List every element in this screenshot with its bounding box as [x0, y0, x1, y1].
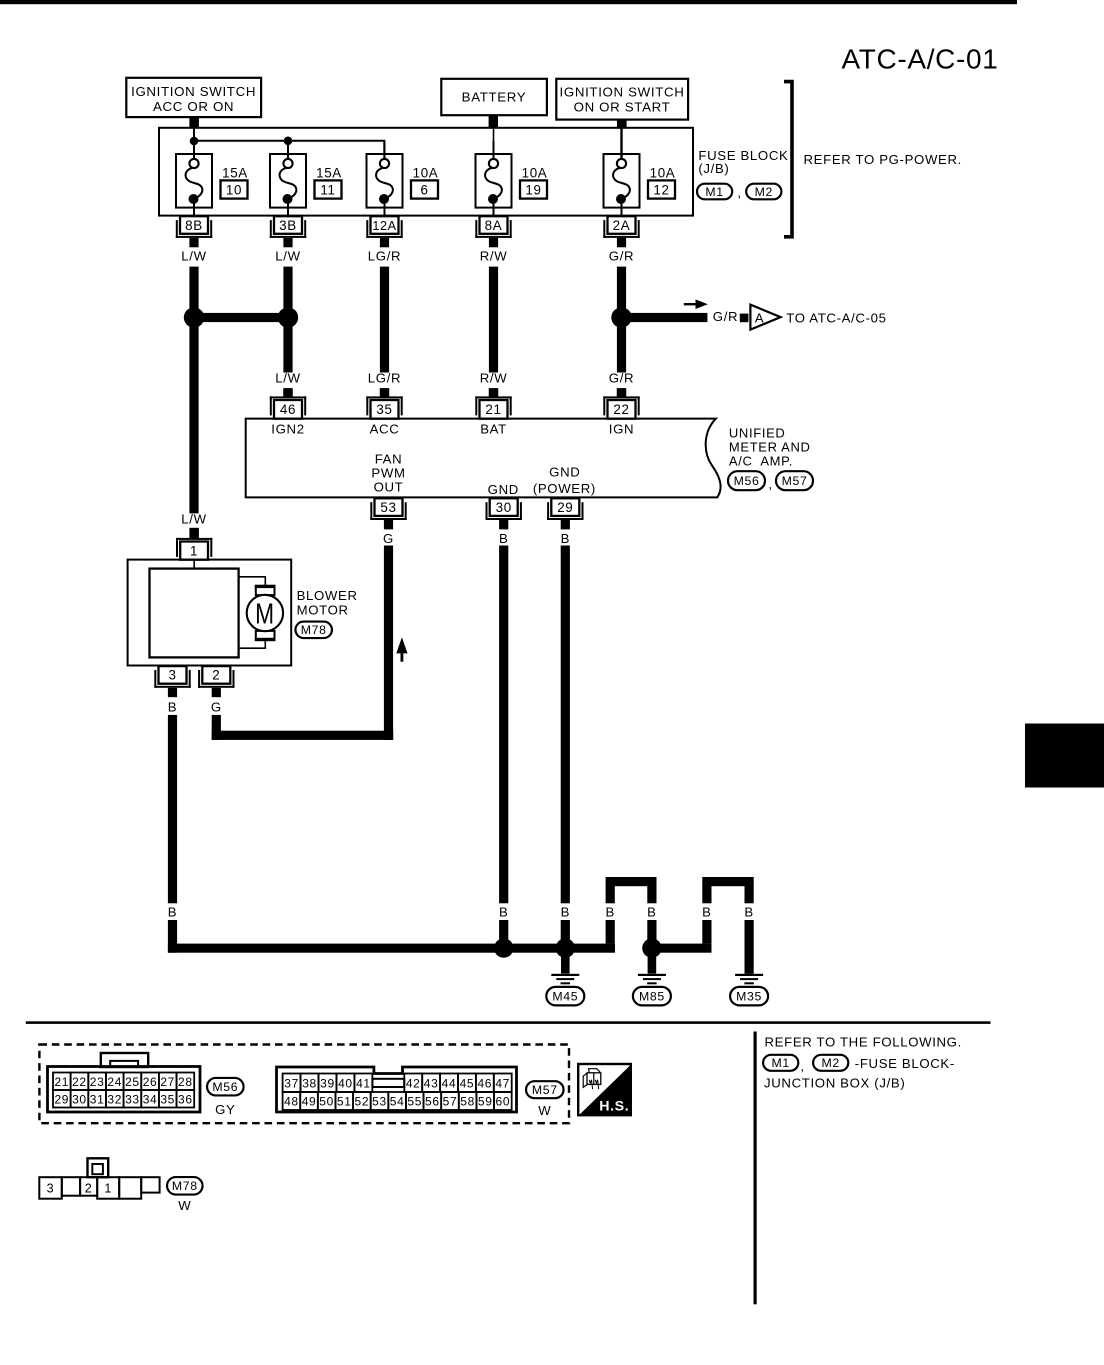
svg-text:LG/R: LG/R [368, 371, 401, 386]
svg-text:G: G [211, 700, 222, 715]
svg-text:M85: M85 [639, 990, 665, 1004]
svg-text:3: 3 [168, 668, 176, 683]
svg-text:42: 42 [406, 1076, 421, 1090]
svg-text:G/R: G/R [713, 309, 738, 324]
node ground dot M85 [642, 938, 661, 957]
connector view M57 (pins 37-60) [277, 1067, 517, 1112]
svg-text:B: B [499, 531, 508, 546]
svg-text:56: 56 [425, 1095, 440, 1109]
connector 35 [366, 388, 402, 419]
label W under M78 [178, 1198, 191, 1213]
motor terminal bottom [255, 631, 276, 641]
svg-text:ACC: ACC [370, 422, 400, 437]
svg-text:FAN: FAN [375, 451, 403, 466]
svg-text:OUT: OUT [374, 479, 404, 494]
connector 3B [270, 216, 306, 247]
svg-text:40: 40 [338, 1076, 353, 1090]
svg-text:M57: M57 [532, 1083, 558, 1097]
connector 3 blower [154, 666, 190, 697]
wire junction horizontal col1-col2 [189, 313, 292, 322]
wire B left vertical lower [168, 920, 177, 953]
svg-text:M56: M56 [212, 1080, 238, 1094]
svg-text:47: 47 [495, 1076, 510, 1090]
svg-text:,: , [800, 1059, 804, 1074]
node branch square [740, 314, 749, 323]
svg-text:M35: M35 [736, 990, 762, 1004]
connector oval M56 [207, 1078, 244, 1096]
wire ground bus main [168, 944, 615, 953]
footer separator line [26, 1021, 991, 1024]
svg-text:,: , [737, 185, 741, 200]
svg-text:45: 45 [460, 1076, 475, 1090]
label comma after M1 [737, 185, 741, 200]
connector 8B [176, 216, 212, 247]
svg-text:B: B [744, 904, 753, 919]
svg-text:L/W: L/W [275, 249, 300, 264]
svg-text:A: A [755, 311, 764, 326]
svg-text:46: 46 [477, 1076, 492, 1090]
connector 29 [547, 498, 583, 529]
wire stub blower pin1 [189, 528, 199, 538]
svg-text:2: 2 [85, 1182, 93, 1196]
svg-text:60: 60 [496, 1095, 511, 1109]
blower resistor inner box [150, 569, 239, 658]
wire stub ignition ON/START to fuse block [617, 119, 627, 128]
svg-text:29: 29 [557, 500, 573, 515]
connector view M56 (pins 21-36) [48, 1053, 201, 1112]
svg-text:27: 27 [160, 1075, 175, 1089]
svg-text:32: 32 [107, 1092, 122, 1106]
wire B pin29 vertical [561, 546, 570, 904]
svg-text:L/W: L/W [275, 371, 300, 386]
svg-text:M1: M1 [705, 185, 723, 199]
connector 8A [475, 216, 511, 247]
svg-text:26: 26 [143, 1075, 158, 1089]
svg-text:BAT: BAT [480, 422, 507, 437]
node junction dot fuse block left [190, 137, 199, 146]
svg-text:10A: 10A [522, 165, 548, 180]
svg-text:44: 44 [442, 1076, 457, 1090]
svg-text:51: 51 [337, 1095, 352, 1109]
svg-text:2: 2 [212, 668, 220, 683]
wire R/W col4 vertical [489, 267, 498, 373]
connector oval M2 footer [813, 1055, 848, 1071]
connector 53 [370, 498, 406, 529]
svg-text:REFER TO THE FOLLOWING.: REFER TO THE FOLLOWING. [765, 1035, 962, 1050]
svg-text:6: 6 [420, 183, 428, 198]
wire B pin30 vertical [499, 546, 508, 904]
svg-text:MOTOR: MOTOR [297, 603, 349, 618]
label wire B pin30 [499, 531, 508, 546]
label W under M57 [538, 1103, 551, 1118]
connector oval M56 ref [728, 471, 765, 490]
wire B pin30 lower [499, 920, 508, 944]
label pin ACC [370, 422, 400, 437]
svg-text:G/R: G/R [609, 249, 634, 264]
label G/R branch [713, 309, 738, 324]
motor M circle [247, 595, 283, 631]
wire stub ignition ACC to fuse block [189, 117, 199, 128]
node junction dot col2 [278, 307, 298, 327]
svg-text:43: 43 [424, 1076, 439, 1090]
svg-text:31: 31 [90, 1092, 105, 1106]
label wire LG/R col3 row2 [368, 371, 401, 386]
svg-text:B: B [561, 531, 570, 546]
label comma after M56 [768, 477, 772, 492]
fuse block (J/B) outline [159, 128, 693, 216]
label wire L/W col1 [181, 249, 206, 264]
label pin GND [488, 482, 519, 497]
svg-text:(POWER): (POWER) [533, 481, 596, 496]
svg-text:M2: M2 [822, 1056, 840, 1070]
connector 21 [475, 388, 511, 419]
svg-text:49: 49 [302, 1095, 317, 1109]
svg-text:39: 39 [320, 1076, 335, 1090]
label wire L/W col2 [275, 249, 300, 264]
label wire B bus 30 [499, 904, 508, 919]
label wire L/W blower [181, 512, 206, 527]
svg-text:30: 30 [72, 1092, 87, 1106]
svg-text:BATTERY: BATTERY [462, 89, 527, 104]
label wire B pin29 [561, 531, 570, 546]
svg-text:B: B [561, 904, 570, 919]
svg-text:53: 53 [380, 500, 396, 515]
svg-text:35: 35 [376, 402, 392, 417]
connector 2A [603, 216, 639, 247]
wire L/W col1 vertical [189, 267, 198, 514]
label pin IGN [609, 422, 634, 437]
svg-text:UNIFIED: UNIFIED [729, 426, 786, 441]
arrow direction marker [684, 299, 708, 309]
svg-text:2A: 2A [613, 218, 631, 233]
svg-text:M45: M45 [552, 990, 578, 1004]
svg-text:25: 25 [125, 1075, 140, 1089]
svg-text:3: 3 [47, 1182, 55, 1196]
svg-text:1: 1 [190, 544, 198, 559]
svg-text:1: 1 [104, 1182, 112, 1196]
svg-text:H.S.: H.S. [599, 1098, 629, 1114]
fuse F3 10A / 6 [367, 141, 439, 216]
connector 30 [486, 498, 522, 529]
svg-text:28: 28 [178, 1075, 193, 1089]
connector 22 [603, 388, 639, 419]
svg-text:37: 37 [284, 1076, 299, 1090]
svg-text:10A: 10A [650, 165, 676, 180]
svg-text:19: 19 [525, 183, 541, 198]
label -FUSE BLOCK- [855, 1056, 955, 1071]
svg-text:54: 54 [390, 1095, 405, 1109]
svg-text:15A: 15A [222, 165, 248, 180]
fuse F2 15A / 11 [270, 141, 342, 216]
label GY [215, 1102, 235, 1117]
wire stub battery to fuse block [489, 115, 498, 128]
label wire B bus left [168, 904, 177, 919]
wire pin1 into resistor box [193, 560, 195, 569]
connector 1 blower [176, 538, 212, 560]
svg-text:52: 52 [355, 1095, 370, 1109]
blower motor outer box [128, 560, 292, 666]
svg-text:B: B [702, 904, 711, 919]
wire staple1 [606, 877, 657, 944]
svg-text:JUNCTION BOX (J/B): JUNCTION BOX (J/B) [764, 1076, 905, 1091]
connector oval M57 [526, 1081, 564, 1098]
svg-text:21: 21 [54, 1075, 69, 1089]
svg-text:8A: 8A [485, 218, 503, 233]
svg-text:22: 22 [72, 1075, 87, 1089]
connector oval M78 ref [295, 622, 332, 639]
svg-text:M78: M78 [301, 623, 327, 637]
svg-text:IGNITION SWITCH: IGNITION SWITCH [131, 84, 256, 99]
page edge index tab [1025, 724, 1104, 788]
svg-text:10A: 10A [413, 165, 439, 180]
wire B pin29 lower [561, 920, 570, 944]
label TO ATC-A/C-05 [786, 311, 886, 326]
label REFER TO THE FOLLOWING [765, 1035, 962, 1050]
svg-text:B: B [168, 700, 177, 715]
label pin FAN PWM OUT [371, 451, 405, 494]
fuse F4 10A / 19 [476, 141, 548, 216]
node ground dot pin30 [494, 938, 513, 957]
connector oval M1 [697, 184, 732, 200]
label comma after M1 footer [800, 1059, 804, 1074]
svg-text:34: 34 [143, 1092, 158, 1106]
svg-text:M2: M2 [755, 185, 773, 199]
svg-text:REFER TO PG-POWER.: REFER TO PG-POWER. [804, 152, 963, 167]
svg-text:L/W: L/W [181, 249, 206, 264]
label wire L/W col2 row2 [275, 371, 300, 386]
svg-text:M56: M56 [734, 474, 760, 488]
connector view M78 (pins 3-2-1) [39, 1158, 159, 1198]
connector oval M2 [746, 184, 781, 200]
label wire B staple1 right [647, 904, 656, 919]
page top border bar [0, 0, 1017, 4]
wire G/R col5 vertical [617, 267, 626, 373]
label pin BAT [480, 422, 507, 437]
wire internal feed fuse 15A-11 [287, 141, 289, 159]
wire staple2 [702, 877, 753, 974]
svg-text:35: 35 [160, 1092, 175, 1106]
svg-text:G: G [383, 531, 394, 546]
svg-text:23: 23 [90, 1075, 105, 1089]
node ground dot M45 [556, 938, 575, 957]
box UNIFIED METER AND A/C AMP [246, 419, 721, 498]
label wire G/R col5 [609, 249, 634, 264]
svg-text:M: M [255, 598, 275, 630]
svg-text:W: W [538, 1103, 551, 1118]
connector 46 [270, 388, 306, 419]
label wire G blower2 [211, 700, 222, 715]
label pin GND (POWER) [533, 465, 596, 497]
wire LG/R col3 vertical [380, 267, 389, 373]
svg-text:BLOWER: BLOWER [297, 588, 358, 603]
motor terminal top [255, 585, 276, 595]
svg-text:59: 59 [478, 1095, 493, 1109]
wire internal feed fuse 15A-10 [193, 128, 195, 159]
svg-text:R/W: R/W [480, 249, 508, 264]
svg-text:IGN2: IGN2 [271, 422, 304, 437]
svg-text:10: 10 [226, 183, 242, 198]
svg-text:B: B [499, 904, 508, 919]
svg-text:M57: M57 [782, 474, 808, 488]
label wire B bus 29 [561, 904, 570, 919]
node junction dot col1 [184, 307, 204, 327]
connector 12A [366, 216, 402, 247]
svg-text:W: W [178, 1198, 191, 1213]
svg-text:LG/R: LG/R [368, 249, 401, 264]
svg-text:41: 41 [356, 1076, 371, 1090]
box IGNITION SWITCH ACC OR ON [126, 78, 261, 117]
wire motor loop [239, 577, 266, 648]
svg-text:GND: GND [549, 465, 580, 480]
label wire G [383, 531, 394, 546]
svg-text:30: 30 [496, 500, 512, 515]
box IGNITION SWITCH ON OR START [556, 79, 688, 120]
wire ground bus segment2 [647, 944, 711, 953]
svg-text:29: 29 [54, 1092, 69, 1106]
svg-text:B: B [605, 904, 614, 919]
svg-text:3B: 3B [279, 218, 297, 233]
dashed connector-view box [39, 1045, 569, 1124]
svg-text:,: , [768, 477, 772, 492]
label wire B staple2 right [744, 904, 753, 919]
label wire R/W col4 row2 [480, 371, 508, 386]
svg-text:46: 46 [280, 402, 296, 417]
svg-text:48: 48 [284, 1095, 299, 1109]
svg-text:50: 50 [319, 1095, 334, 1109]
wire L/W col2 vertical [283, 267, 292, 373]
svg-text:R/W: R/W [480, 371, 508, 386]
connector 2 blower [198, 666, 234, 697]
logo H.S. [578, 1064, 631, 1115]
svg-text:A/C AMP.: A/C AMP. [729, 453, 793, 468]
svg-text:L/W: L/W [181, 512, 206, 527]
svg-text:METER AND: METER AND [729, 440, 811, 455]
wire internal feed fuse 10A-12 [620, 128, 622, 159]
fuse F1 15A / 10 [176, 141, 248, 216]
wire stub ground M45 [561, 955, 570, 974]
node junction dot fuse block mid [284, 137, 293, 146]
svg-text:G/R: G/R [609, 371, 634, 386]
svg-text:11: 11 [320, 183, 335, 198]
wire stub ground M85 [648, 955, 657, 974]
label wire R/W col4 [480, 249, 508, 264]
label wire B staple1 left [605, 904, 614, 919]
svg-text:53: 53 [372, 1095, 387, 1109]
svg-text:55: 55 [407, 1095, 422, 1109]
footer vertical divider [754, 1032, 757, 1305]
label UNIFIED METER AND A/C AMP [729, 426, 811, 469]
svg-text:15A: 15A [316, 165, 342, 180]
svg-text:IGN: IGN [609, 422, 634, 437]
ground M45 [546, 974, 584, 1006]
ground M85 [633, 974, 671, 1006]
label wire LG/R col3 [368, 249, 401, 264]
svg-text:GND: GND [488, 482, 519, 497]
bracket refer to PG-POWER [784, 82, 792, 237]
svg-text:TO ATC-A/C-05: TO ATC-A/C-05 [786, 311, 886, 326]
svg-text:38: 38 [302, 1076, 317, 1090]
symbol triangle A to ATC-A/C-05 [750, 305, 780, 330]
svg-text:8B: 8B [185, 218, 203, 233]
svg-text:36: 36 [178, 1092, 193, 1106]
box BATTERY [441, 79, 547, 115]
fuse F5 10A / 12 [604, 141, 676, 216]
svg-text:21: 21 [485, 402, 501, 417]
svg-text:M78: M78 [172, 1179, 198, 1193]
svg-text:12: 12 [653, 183, 669, 198]
connector oval M57 ref [776, 471, 813, 490]
node junction dot col5 [611, 307, 631, 327]
label REFER TO PG-POWER [804, 152, 963, 167]
svg-text:M1: M1 [772, 1056, 790, 1070]
label wire B staple2 left [702, 904, 711, 919]
label FUSE BLOCK (J/B) [698, 148, 788, 176]
svg-text:24: 24 [107, 1075, 122, 1089]
wire G route [212, 546, 394, 740]
svg-text:22: 22 [613, 402, 629, 417]
arrow up on G wire [396, 637, 407, 662]
wire B left vertical upper [168, 715, 177, 903]
svg-text:B: B [647, 904, 656, 919]
svg-text:(J/B): (J/B) [698, 161, 729, 176]
label BLOWER MOTOR [297, 588, 358, 617]
svg-text:-FUSE BLOCK-: -FUSE BLOCK- [855, 1056, 955, 1071]
svg-text:57: 57 [443, 1095, 458, 1109]
title ATC-A/C-01 [842, 44, 999, 75]
label wire B blower3 [168, 700, 177, 715]
label pin IGN2 [271, 422, 304, 437]
wire internal bus dot1 to fuse 10A-6 [194, 141, 384, 159]
connector oval M1 footer [763, 1055, 798, 1071]
label wire G/R col5 row2 [609, 371, 634, 386]
connector oval M78 [167, 1177, 203, 1195]
svg-text:ATC-A/C-01: ATC-A/C-01 [842, 44, 999, 75]
svg-text:58: 58 [460, 1095, 475, 1109]
svg-text:12A: 12A [372, 219, 396, 233]
svg-text:ACC OR ON: ACC OR ON [153, 99, 234, 114]
wire G/R branch horizontal [622, 313, 708, 322]
svg-text:B: B [168, 904, 177, 919]
wire internal feed fuse 10A-19 [493, 128, 495, 159]
ground M35 [730, 974, 768, 1006]
svg-text:PWM: PWM [371, 465, 405, 480]
label JUNCTION BOX (J/B) [764, 1076, 905, 1091]
svg-text:IGNITION SWITCH: IGNITION SWITCH [560, 84, 685, 99]
svg-text:GY: GY [215, 1102, 235, 1117]
svg-text:33: 33 [125, 1092, 140, 1106]
svg-text:ON OR START: ON OR START [574, 100, 671, 115]
